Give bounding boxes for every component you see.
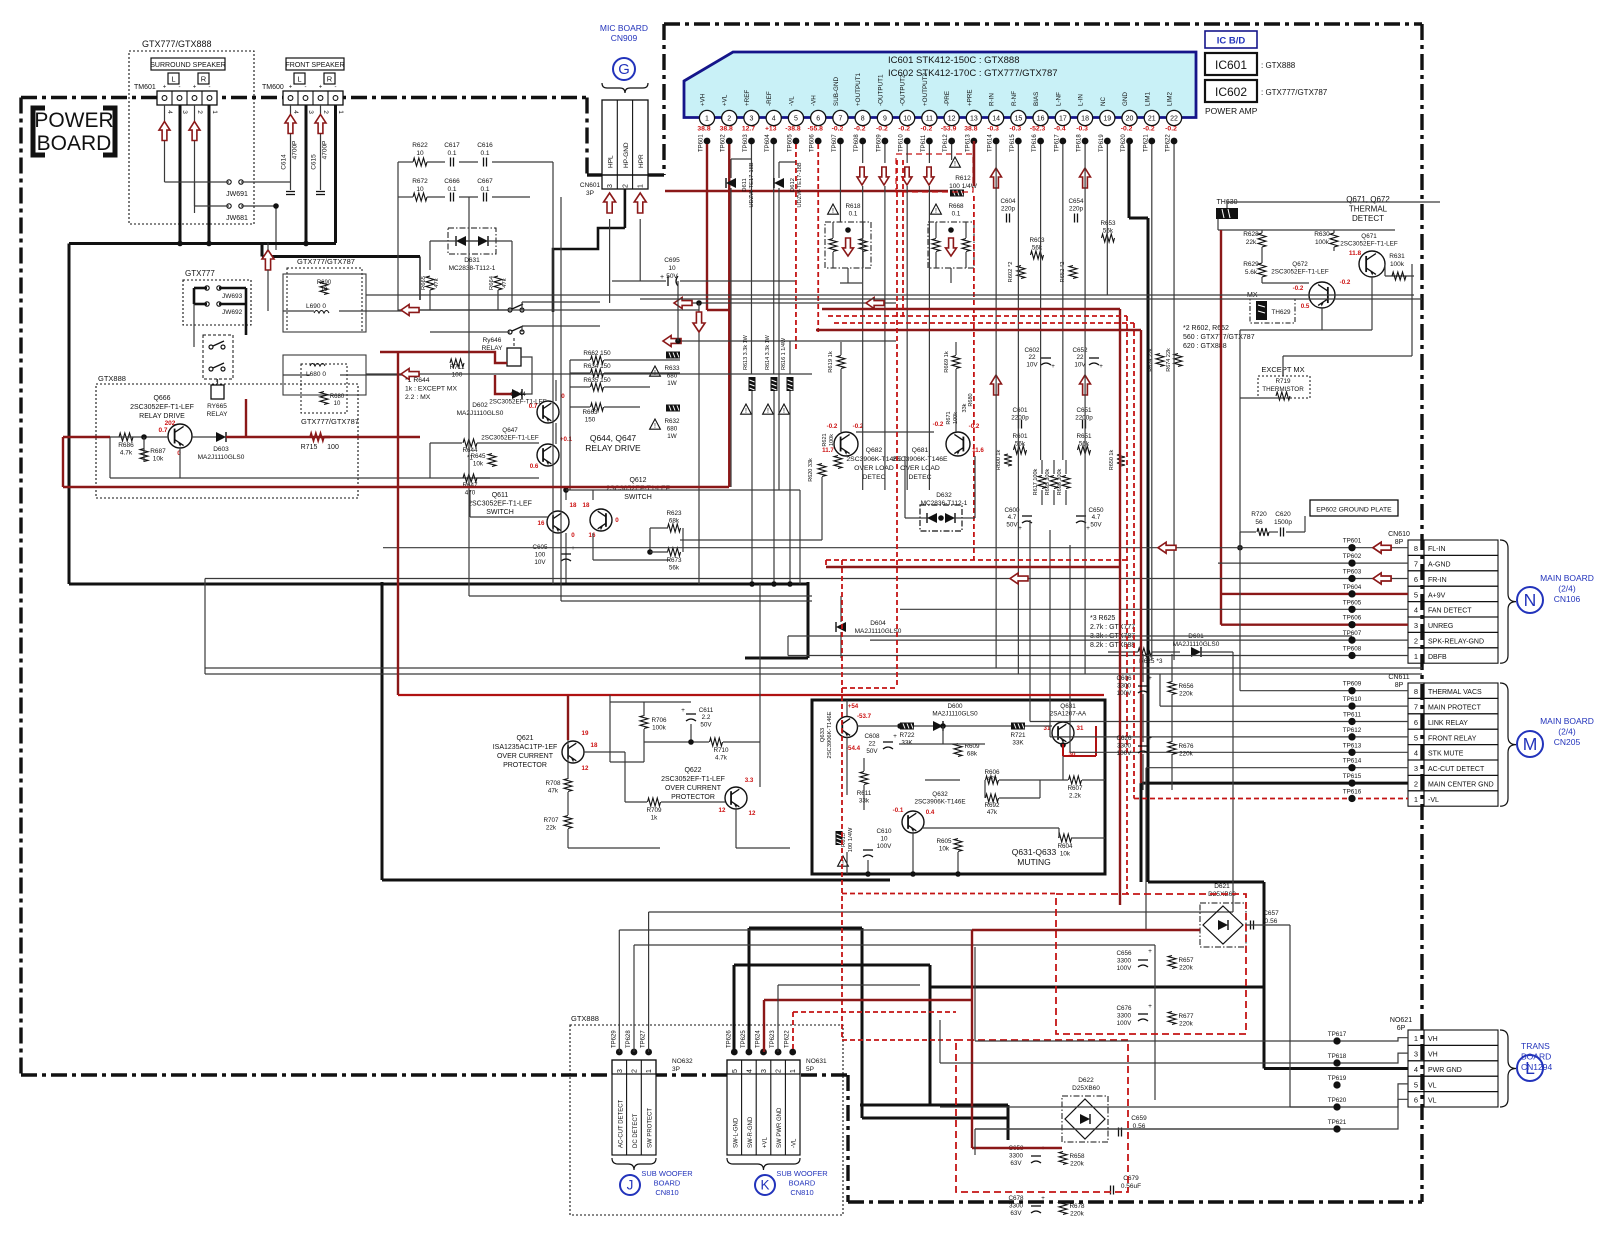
svg-text:+: + [193,85,197,91]
svg-text:10: 10 [903,116,911,123]
svg-text:K: K [760,1178,769,1193]
svg-text:Q633: Q633 [820,728,826,742]
svg-text:CN810: CN810 [790,1188,813,1197]
svg-text:+VH: +VH [700,93,707,106]
svg-text:R687: R687 [150,448,166,455]
svg-text:56k: 56k [1079,441,1090,448]
svg-text:6: 6 [1414,718,1418,727]
svg-text:-OUTPUT1: -OUTPUT1 [877,74,884,106]
svg-text:R650 1k: R650 1k [1109,450,1115,471]
svg-text:D602: D602 [472,402,488,409]
svg-text:14: 14 [992,116,1000,123]
svg-text:0: 0 [615,517,619,524]
svg-text:100 1/4W: 100 1/4W [848,827,854,852]
svg-text:R613 3.3k 1W: R613 3.3k 1W [743,334,749,370]
svg-text:4.7: 4.7 [1008,514,1017,521]
svg-text:10: 10 [668,265,676,272]
svg-text:R680: R680 [330,394,345,400]
svg-text:3: 3 [181,110,188,114]
svg-text:-0.3: -0.3 [987,126,999,133]
svg-text:RELAY: RELAY [207,411,228,418]
svg-text:18: 18 [570,502,577,509]
svg-text:R707: R707 [543,817,559,824]
svg-text:TP606: TP606 [810,134,816,152]
svg-text:8: 8 [1414,687,1418,696]
svg-text:C601: C601 [1012,407,1028,414]
svg-text:R620 33k: R620 33k [808,458,814,482]
svg-text:TP610: TP610 [1343,696,1362,703]
svg-text:C606: C606 [1116,675,1132,682]
svg-text:Q622: Q622 [684,767,701,774]
svg-text:31: 31 [1077,725,1084,732]
svg-text:R658: R658 [1069,1153,1085,1160]
svg-text:R-NF: R-NF [1011,91,1018,106]
svg-text:3300: 3300 [1009,1153,1024,1160]
svg-text:47k: 47k [548,788,559,795]
svg-text:N: N [1524,590,1537,610]
svg-text:OVER LOAD: OVER LOAD [900,465,940,472]
svg-text:0.56: 0.56 [1265,918,1278,925]
svg-text:5: 5 [1414,590,1418,599]
svg-text:TP605: TP605 [1343,599,1362,606]
svg-text:C604: C604 [1000,198,1016,205]
svg-text:68k: 68k [669,518,680,525]
svg-text:2200p: 2200p [1075,415,1093,422]
svg-text:HPL: HPL [608,155,615,168]
svg-text:M: M [1523,734,1538,754]
svg-text:Q682: Q682 [866,447,883,454]
svg-text:VH: VH [1428,1052,1438,1059]
svg-text:-0.2: -0.2 [1143,126,1155,133]
svg-text:TP613: TP613 [1343,742,1362,749]
svg-text:R662 150: R662 150 [583,350,611,357]
svg-text:TM601: TM601 [134,84,156,91]
svg-text:Q666: Q666 [153,395,170,402]
svg-text:C617: C617 [444,142,460,149]
svg-text:R674 22k: R674 22k [1166,348,1172,372]
svg-text:TP611: TP611 [921,134,927,152]
svg-text:+54: +54 [848,703,859,710]
svg-text:R633: R633 [664,365,680,372]
svg-text:MC2836-T112-1: MC2836-T112-1 [921,500,968,507]
svg-text:R632: R632 [664,418,680,425]
svg-text:-55.8: -55.8 [807,126,823,133]
svg-text:8: 8 [861,116,865,123]
svg-text:Q644, Q647: Q644, Q647 [590,433,637,443]
svg-text:TP628: TP628 [626,1030,632,1048]
svg-text:MA2J1110GLS0: MA2J1110GLS0 [932,711,978,718]
svg-text:R604: R604 [1057,843,1073,850]
svg-text:R601: R601 [1012,433,1028,440]
svg-text:JW693: JW693 [222,293,243,300]
svg-text:-0.3: -0.3 [1010,126,1022,133]
svg-text:+: + [1148,948,1152,955]
svg-text:20: 20 [1126,116,1134,123]
svg-text:TP610: TP610 [899,134,905,152]
svg-text:+: + [319,85,323,91]
svg-text:2: 2 [776,1069,783,1073]
svg-text:18: 18 [583,502,590,509]
svg-text:R711: R711 [449,364,464,371]
svg-text:SUB WOOFER: SUB WOOFER [641,1169,693,1178]
svg-text:4: 4 [1414,749,1418,758]
svg-text:38.8: 38.8 [964,126,977,133]
svg-text:+13: +13 [765,126,777,133]
svg-text:19: 19 [582,730,589,737]
svg-text:11: 11 [926,116,933,123]
svg-text:4: 4 [772,116,776,123]
svg-text:1: 1 [211,110,218,114]
svg-text:10: 10 [321,287,328,293]
svg-text:TH629: TH629 [1272,309,1291,316]
svg-text:-: - [335,85,337,91]
svg-text:D25XB60: D25XB60 [1072,1085,1100,1092]
svg-text:100: 100 [452,372,463,379]
svg-text:NC: NC [1100,96,1107,106]
svg-text:C657: C657 [1263,910,1279,917]
svg-text:+: + [1086,525,1090,532]
svg-text:+: + [1148,735,1152,742]
svg-text:SW-L-GND: SW-L-GND [733,1117,739,1148]
svg-text:50V: 50V [866,748,878,755]
svg-text:: GTX888: : GTX888 [1261,61,1296,70]
svg-text:22: 22 [1170,116,1178,123]
svg-text:+PRE: +PRE [966,89,973,106]
svg-text:GTX777/GTX787: GTX777/GTX787 [301,417,359,426]
svg-text:220k: 220k [1179,751,1194,758]
svg-text:IC601: IC601 [1215,58,1247,72]
svg-text:MA2J1110GLS0: MA2J1110GLS0 [457,410,504,417]
svg-text:TP616: TP616 [1343,789,1362,796]
svg-text:DC DETECT: DC DETECT [633,1113,639,1148]
svg-text:50V: 50V [1090,521,1102,528]
svg-text:TP607: TP607 [832,134,838,152]
svg-text:+: + [289,85,293,91]
svg-text:SPK-RELAY-GND: SPK-RELAY-GND [1428,639,1484,646]
svg-text:Q647: Q647 [502,427,518,434]
svg-text:1: 1 [638,184,645,188]
svg-text:C656: C656 [1116,950,1132,957]
svg-text:VL: VL [1428,1098,1437,1105]
svg-text:C678: C678 [1008,1195,1024,1202]
svg-text:Q681: Q681 [912,447,929,454]
svg-text:SUB WOOFER: SUB WOOFER [776,1169,828,1178]
svg-text:MAIN CENTER GND: MAIN CENTER GND [1428,782,1494,789]
svg-text:6: 6 [816,116,820,123]
svg-text:-: - [179,85,181,91]
svg-text:C652: C652 [1072,347,1088,354]
svg-text:R677: R677 [1178,1013,1194,1020]
svg-text:10V: 10V [1026,361,1038,368]
svg-text:UNREG: UNREG [1428,623,1453,630]
svg-text:-0.3: -0.3 [1076,126,1088,133]
svg-text:5: 5 [794,116,798,123]
svg-text:Q612: Q612 [629,477,646,484]
svg-text:R614 3.3k 1W: R614 3.3k 1W [765,334,771,370]
svg-text:R715: R715 [301,444,318,451]
svg-text:THERMAL VACS: THERMAL VACS [1428,689,1482,696]
svg-text:+: + [681,707,685,714]
svg-text:22: 22 [868,741,876,748]
svg-text:10k: 10k [939,846,950,853]
svg-text:220k: 220k [1070,1211,1085,1218]
svg-text:DBFB: DBFB [1428,654,1447,661]
svg-text:Q671: Q671 [1361,233,1377,240]
svg-text:56k: 56k [1032,245,1043,252]
svg-text:SWITCH: SWITCH [486,509,514,516]
svg-text:C614: C614 [281,154,288,170]
svg-text:TP606: TP606 [1343,615,1362,622]
svg-text:C679: C679 [1123,1175,1139,1182]
svg-text:+: + [893,733,897,740]
svg-text:R607: R607 [1067,785,1083,792]
svg-text:DETECT: DETECT [1352,214,1384,223]
svg-text:3300: 3300 [1009,1203,1024,1210]
svg-text:2.7k : GTX777: 2.7k : GTX777 [1090,624,1135,631]
svg-text:11.6: 11.6 [972,447,984,454]
svg-text:FRONT RELAY: FRONT RELAY [1428,735,1477,742]
svg-text:UDZW-TE17-18B: UDZW-TE17-18B [749,162,755,207]
svg-text:BOARD: BOARD [654,1179,681,1188]
svg-text:4: 4 [292,110,299,114]
svg-text:TP622: TP622 [1166,134,1172,152]
svg-text:21: 21 [1148,116,1156,123]
svg-text:2SC3052EF-T1-LEF: 2SC3052EF-T1-LEF [481,435,539,442]
svg-text:+: + [1051,363,1055,370]
svg-text:UDZW-TE17-18B: UDZW-TE17-18B [797,162,803,207]
svg-text:CN611: CN611 [1388,674,1409,681]
svg-text:MA2J1110GLS0: MA2J1110GLS0 [1173,641,1220,648]
svg-text:+: + [571,545,575,552]
svg-text:GTX777/GTX888: GTX777/GTX888 [142,39,212,49]
svg-text:Q611: Q611 [492,492,509,499]
svg-text:TP602: TP602 [721,134,727,152]
svg-text:PROTECTOR: PROTECTOR [503,762,547,769]
svg-text:R645: R645 [470,453,486,460]
svg-text:-VL: -VL [788,96,795,106]
svg-text:RELAY DRIVE: RELAY DRIVE [585,443,641,453]
svg-text:R-IN: R-IN [989,93,996,106]
svg-text:R678: R678 [1069,1203,1085,1210]
svg-text:IC602 STK412-170C : GTX777/G: IC602 STK412-170C : GTX777/GTX787 [888,68,1058,79]
svg-text:4: 4 [166,110,173,114]
svg-text:0.1: 0.1 [447,150,456,157]
svg-text:680: 680 [667,426,678,433]
svg-text:D631: D631 [464,257,480,264]
svg-text:R708: R708 [545,780,561,787]
svg-text:R657: R657 [1178,957,1194,964]
svg-text:R721: R721 [1010,732,1026,739]
svg-text:R618: R618 [845,203,861,210]
svg-text:C602: C602 [1024,347,1040,354]
svg-text:TP620: TP620 [1328,1097,1347,1104]
svg-text:R622: R622 [412,142,428,149]
svg-text:R630: R630 [1314,231,1330,238]
svg-text:2: 2 [622,184,629,188]
svg-text:33K: 33K [1012,740,1024,747]
svg-text:R706: R706 [651,717,667,724]
svg-text:Q631: Q631 [1060,703,1076,710]
svg-text:TP624: TP624 [756,1030,762,1048]
svg-text:C615: C615 [311,154,318,170]
svg-text:220k: 220k [1070,1161,1085,1168]
svg-text:2SC3906K-T146E: 2SC3906K-T146E [827,711,833,758]
svg-text:1: 1 [337,110,344,114]
svg-text:+VL: +VL [722,94,729,106]
svg-text:R696 100k: R696 100k [1057,468,1063,495]
svg-text:NO621: NO621 [1390,1017,1412,1024]
svg-text:-: - [305,85,307,91]
svg-text:12: 12 [719,807,726,814]
svg-text:SW PWR GND: SW PWR GND [777,1107,783,1148]
svg-text:STK MUTE: STK MUTE [1428,751,1464,758]
svg-text:TP629: TP629 [611,1030,617,1048]
svg-text:-53.9: -53.9 [941,126,957,133]
svg-text:TP615: TP615 [1343,773,1362,780]
svg-text:R669 1k: R669 1k [944,351,950,373]
svg-text:(2/4): (2/4) [1558,727,1576,737]
svg-text:CN1294: CN1294 [1521,1062,1552,1072]
svg-text:-53.7: -53.7 [857,713,872,720]
svg-text:3300: 3300 [1117,1013,1132,1020]
svg-text:3.3: 3.3 [745,777,754,784]
svg-text:2.2k: 2.2k [1069,793,1082,800]
svg-text:13: 13 [970,116,978,123]
svg-text:-VL: -VL [792,1138,798,1148]
svg-text:D621: D621 [1214,883,1230,890]
svg-text:R600 1k: R600 1k [996,450,1002,471]
svg-text:TP604: TP604 [1343,584,1362,591]
svg-text:Q631-Q633: Q631-Q633 [1012,847,1057,857]
svg-text:10: 10 [416,186,424,193]
svg-text:TP601: TP601 [1343,538,1362,545]
svg-text:100: 100 [535,552,546,559]
svg-text:FAN DETECT: FAN DETECT [1428,608,1472,615]
svg-text:+OUTPUT2: +OUTPUT2 [922,72,929,106]
svg-text:1: 1 [705,116,709,123]
svg-text:VL: VL [1428,1082,1437,1089]
svg-text:TP602: TP602 [1343,553,1362,560]
svg-text:7: 7 [1414,703,1418,712]
svg-text:TP625: TP625 [741,1030,747,1048]
svg-text:(2/4): (2/4) [1558,584,1576,594]
svg-text:11.8: 11.8 [1349,250,1362,257]
svg-text:POWER AMP: POWER AMP [1205,106,1258,116]
svg-text:CN205: CN205 [1554,737,1581,747]
svg-text:MA2J1110GLS0: MA2J1110GLS0 [198,454,245,461]
svg-text:BOARD: BOARD [37,132,112,155]
svg-text:3: 3 [761,1069,768,1073]
svg-text:R663: R663 [582,409,598,416]
svg-text:10: 10 [334,401,341,407]
svg-text:TP608: TP608 [1343,646,1362,653]
svg-text:R612: R612 [955,175,971,182]
svg-text:C611: C611 [699,707,714,714]
svg-text:2SC3052EF-T1-LEF: 2SC3052EF-T1-LEF [1271,269,1329,276]
svg-text:100V: 100V [1117,750,1133,757]
svg-text:TP609: TP609 [1343,681,1362,688]
svg-text:5.6k: 5.6k [1245,269,1258,276]
svg-text:A+9V: A+9V [1428,592,1446,599]
svg-text:FRONT SPEAKER: FRONT SPEAKER [286,62,345,69]
svg-text:2SC3052EF-T1-LEF: 2SC3052EF-T1-LEF [130,404,194,411]
svg-text:-0.2: -0.2 [933,421,944,428]
svg-text:8P: 8P [1395,539,1404,546]
svg-text:THERMISTOR: THERMISTOR [1262,386,1304,393]
svg-text:-VL: -VL [1428,797,1439,804]
svg-text:R664: R664 [489,275,495,290]
svg-text:C666: C666 [444,178,460,185]
svg-text:220k: 220k [1179,1021,1194,1028]
svg-text:TP621: TP621 [1328,1119,1347,1126]
svg-text:TP621: TP621 [1143,134,1149,152]
svg-text:SURROUND SPEAKER: SURROUND SPEAKER [150,62,225,69]
svg-text:TP614: TP614 [1343,758,1362,765]
svg-text:+: + [163,85,167,91]
svg-text:12: 12 [749,810,756,817]
svg-text:+: + [1148,675,1152,682]
svg-text:R: R [201,75,207,84]
svg-text:2: 2 [196,110,203,114]
svg-text:12.7: 12.7 [742,126,755,133]
svg-text:R634 150: R634 150 [583,363,611,370]
svg-text:100k: 100k [829,434,835,446]
svg-text:OVER CURRENT: OVER CURRENT [497,753,554,760]
svg-text:R628: R628 [1243,231,1259,238]
svg-text:R629: R629 [1243,261,1259,268]
svg-text:AC-CUT DETECT: AC-CUT DETECT [618,1099,624,1148]
svg-text:C600: C600 [1004,507,1020,514]
svg-text:R619 1k: R619 1k [828,351,834,373]
svg-text:2: 2 [727,116,731,123]
svg-text:A-GND: A-GND [1428,562,1451,569]
svg-text:SWITCH: SWITCH [624,494,652,501]
svg-text:19: 19 [1103,116,1111,123]
svg-text:2SC3906K-T146E: 2SC3906K-T146E [914,799,965,806]
svg-text:SW PROTECT: SW PROTECT [648,1108,654,1148]
svg-text:: GTX777/GTX787: : GTX777/GTX787 [1261,88,1328,97]
svg-text:47k: 47k [987,776,998,783]
svg-text:+: + [1099,363,1103,370]
svg-text:16: 16 [538,520,545,527]
svg-text:220k: 220k [1179,691,1194,698]
svg-text:3: 3 [1414,621,1418,630]
svg-text:4: 4 [746,1069,753,1073]
svg-text:R602 *2: R602 *2 [1008,262,1014,283]
svg-text:2200p: 2200p [1011,415,1029,422]
svg-text:150: 150 [585,417,596,424]
svg-text:VH: VH [1428,1036,1438,1043]
svg-text:CN610: CN610 [1388,531,1410,538]
svg-text:3300: 3300 [1117,958,1132,965]
svg-text:3P: 3P [672,1066,680,1073]
svg-text:TP608: TP608 [854,134,860,152]
svg-text:1: 1 [1414,1034,1418,1043]
svg-text:3: 3 [617,1069,624,1073]
svg-text:R676: R676 [1178,743,1194,750]
svg-text:4.7: 4.7 [1092,514,1101,521]
svg-text:C667: C667 [477,178,493,185]
svg-text:-VH: -VH [811,95,818,106]
svg-text:BOARD: BOARD [789,1179,816,1188]
svg-text:+OUTPUT1: +OUTPUT1 [855,72,862,106]
svg-text:LIM2: LIM2 [1167,92,1174,106]
svg-text:C626: C626 [1116,735,1132,742]
svg-text:50V: 50V [1006,521,1018,528]
svg-text:MIC BOARD: MIC BOARD [600,23,648,33]
svg-text:L690 0: L690 0 [306,303,326,310]
svg-text:2: 2 [322,110,329,114]
